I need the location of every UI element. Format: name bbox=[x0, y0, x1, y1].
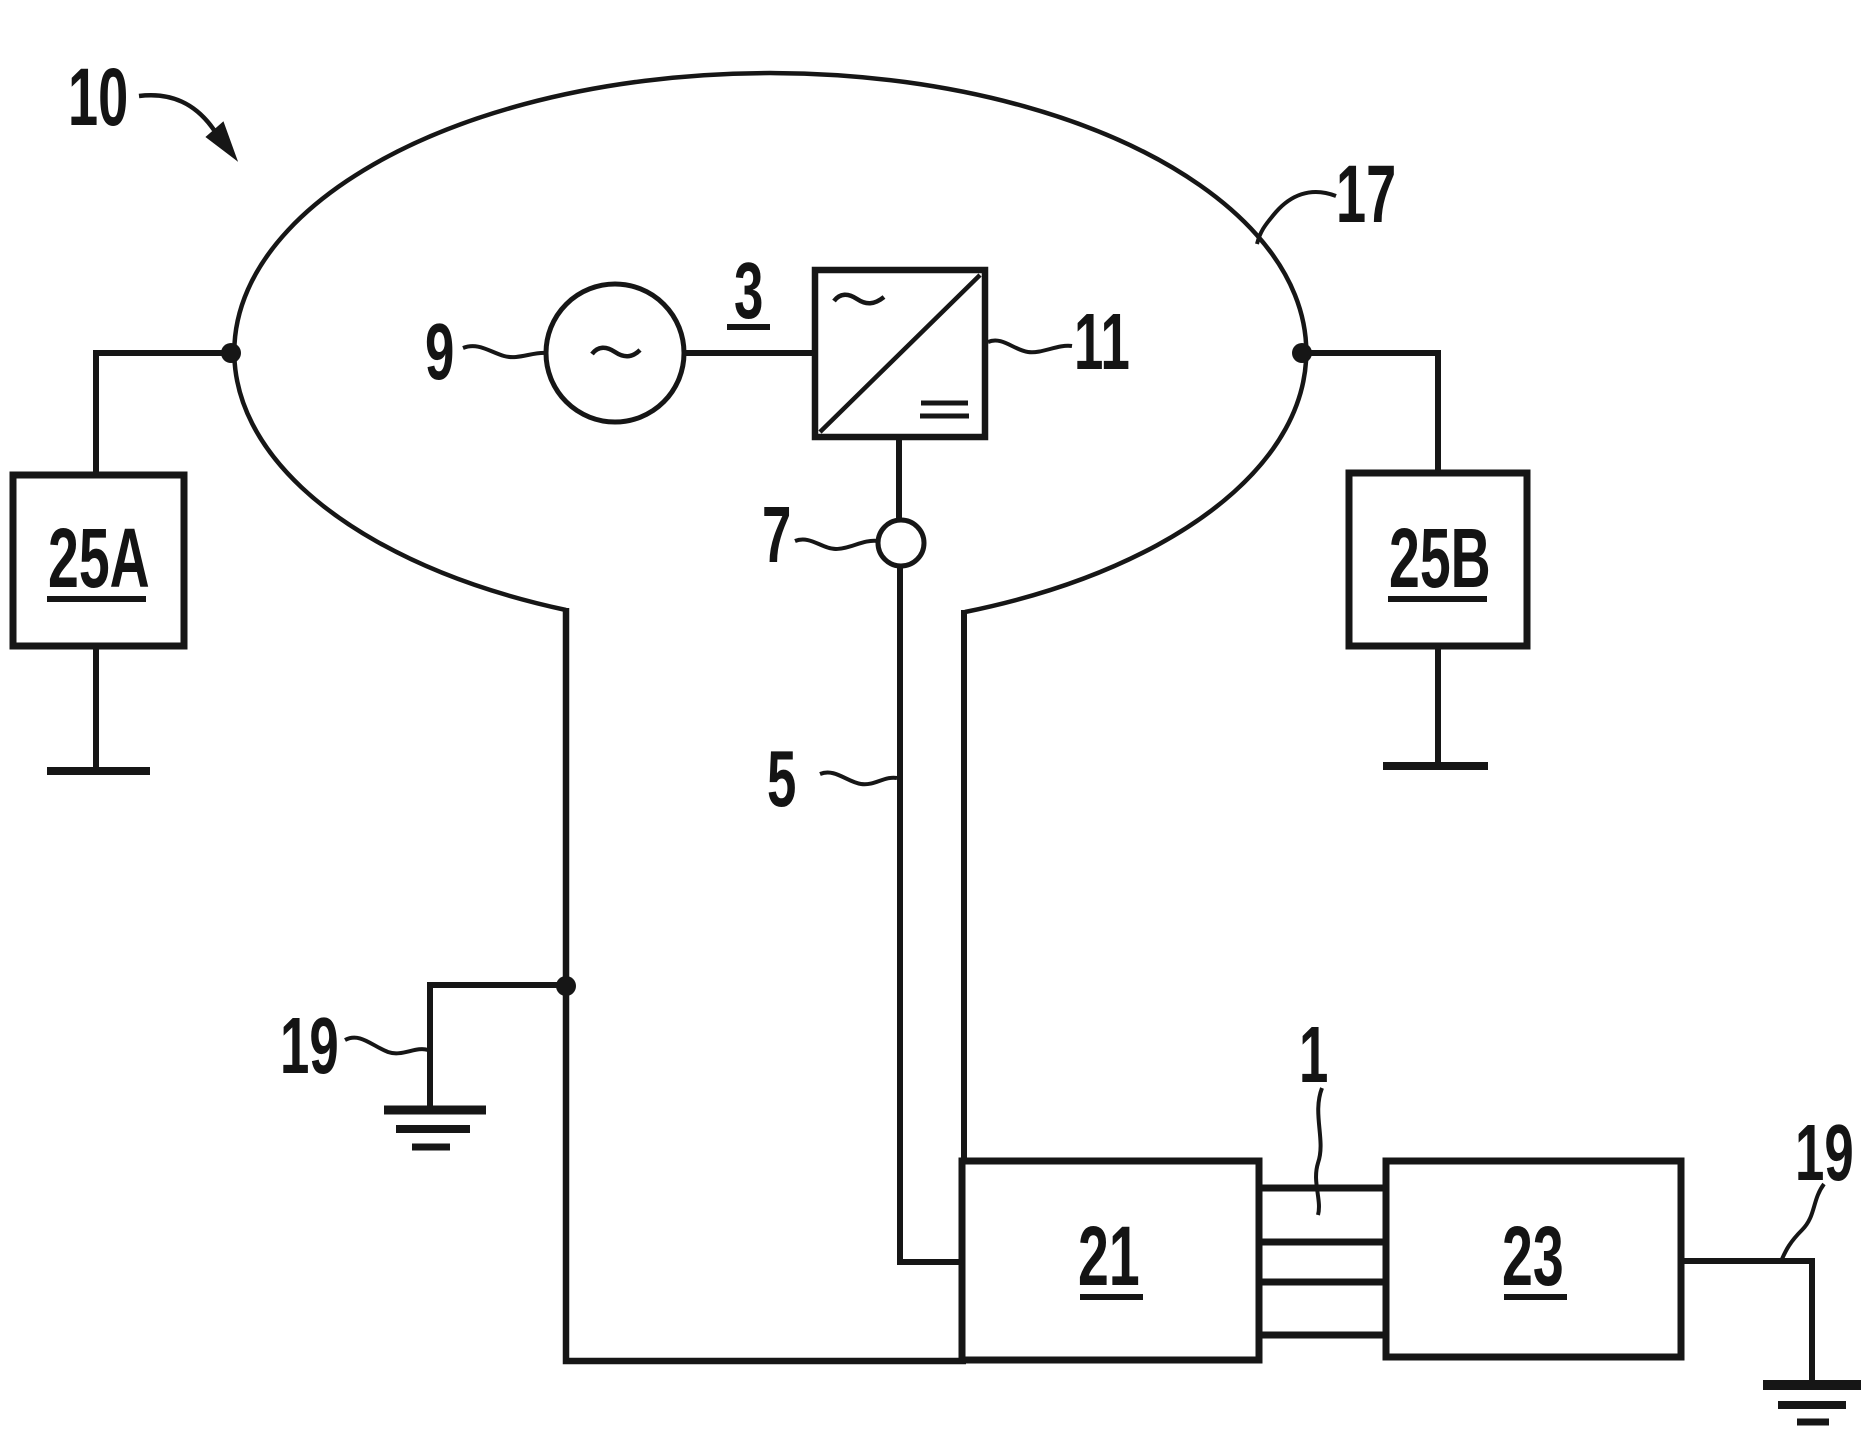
label 9 bbox=[425, 308, 546, 397]
label 17 bbox=[1257, 148, 1396, 244]
svg-text:25B: 25B bbox=[1389, 513, 1491, 606]
wire: junction to 25B bbox=[1302, 353, 1438, 474]
label 3 bbox=[727, 247, 770, 336]
label 10 bbox=[68, 51, 236, 159]
svg-text:3: 3 bbox=[734, 247, 763, 336]
svg-text:5: 5 bbox=[767, 735, 796, 824]
svg-text:19: 19 bbox=[280, 1002, 339, 1091]
box 23 bbox=[1386, 1161, 1681, 1357]
box 25B bbox=[1349, 473, 1527, 646]
ground (25B) bbox=[1383, 762, 1488, 770]
wire: junction to left bbox=[96, 353, 231, 476]
wire: converter down to circle 7 bbox=[896, 437, 902, 521]
box 21 bbox=[962, 1161, 1259, 1360]
node B: right junction dot bbox=[1292, 343, 1312, 363]
wire: source to converter bbox=[684, 350, 815, 356]
ground (25A) bbox=[47, 767, 150, 775]
svg-text:11: 11 bbox=[1074, 298, 1130, 387]
node C: junction dot on left neck bbox=[556, 976, 576, 996]
node ellipse 17 (machine boundary) bbox=[234, 73, 1306, 612]
label 1 bbox=[1299, 1011, 1328, 1215]
svg-text:17: 17 bbox=[1336, 148, 1396, 240]
svg-text:10: 10 bbox=[68, 51, 128, 143]
ground 19 (right) bbox=[1763, 1385, 1861, 1422]
label 5 bbox=[767, 735, 897, 824]
wire: 25A to ground bbox=[93, 646, 99, 771]
svg-text:9: 9 bbox=[425, 308, 454, 397]
AC source circle 9 bbox=[546, 284, 684, 422]
wire: 25B to ground bbox=[1435, 646, 1441, 766]
ground 19 (left) bbox=[384, 1110, 486, 1147]
wire: left neck down and along bottom to box 21 bbox=[566, 608, 966, 1361]
label 19 (left) bbox=[280, 1002, 428, 1091]
label 7 bbox=[762, 491, 878, 580]
svg-text:7: 7 bbox=[762, 491, 791, 580]
label 11 bbox=[988, 298, 1130, 387]
box 25A bbox=[13, 475, 184, 646]
svg-text:21: 21 bbox=[1078, 1211, 1140, 1304]
bus wires between 21 and 23 bbox=[1259, 1188, 1386, 1335]
wire: 23 to ground (right) bbox=[1681, 1261, 1812, 1381]
node A: left junction dot bbox=[221, 343, 241, 363]
label 19 (right) bbox=[1782, 1109, 1854, 1259]
wire: junction to ground 19 bbox=[430, 985, 566, 1108]
wire: right neck down to box 21 bbox=[961, 610, 967, 1161]
wire 5: circle 7 down and into box 21 bbox=[900, 566, 962, 1262]
svg-text:1: 1 bbox=[1299, 1011, 1328, 1100]
svg-text:23: 23 bbox=[1502, 1211, 1564, 1304]
connection circle 7 bbox=[878, 520, 924, 566]
converter U11 (AC/DC) bbox=[815, 270, 985, 437]
svg-text:25A: 25A bbox=[48, 513, 150, 606]
